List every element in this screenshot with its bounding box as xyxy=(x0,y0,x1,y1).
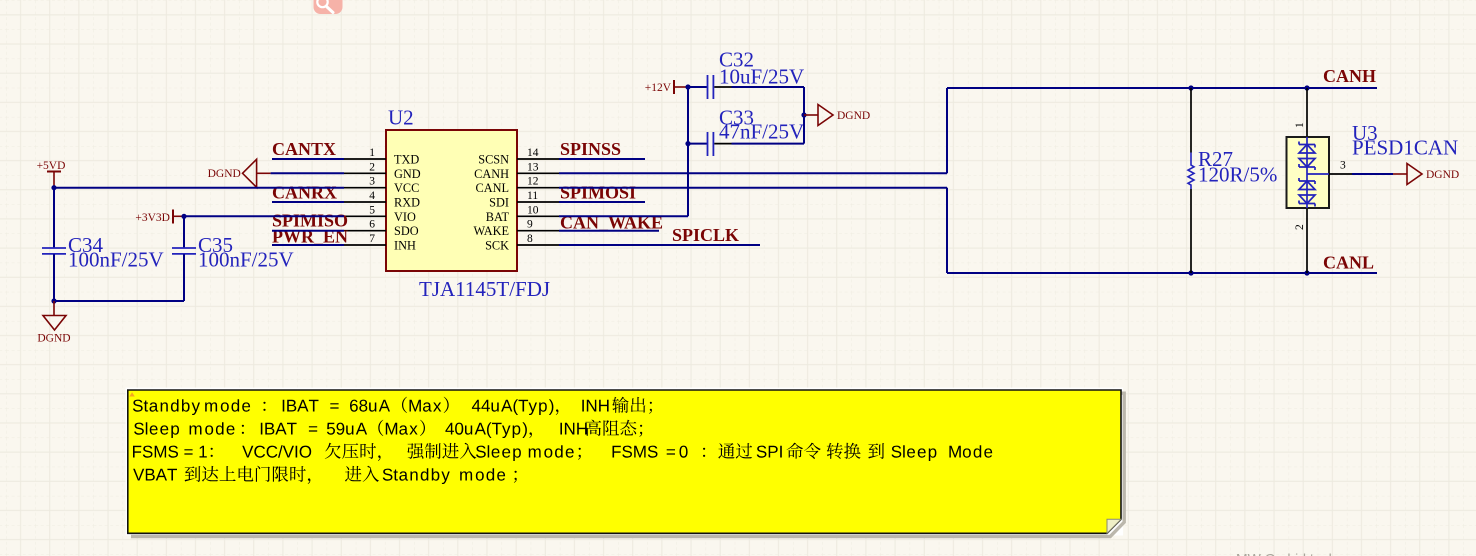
svg-text:SPICLK: SPICLK xyxy=(672,225,739,245)
wire CANH from pin13 xyxy=(559,172,947,174)
wire +3V3D to VIO pin5 xyxy=(184,215,344,217)
capacitor C32 xyxy=(707,75,709,99)
svg-text:INH: INH xyxy=(394,239,416,253)
svg-text:11: 11 xyxy=(527,190,538,202)
svg-text:7: 7 xyxy=(369,233,375,245)
svg-text:SDI: SDI xyxy=(489,196,509,210)
wire C34 top xyxy=(53,188,55,248)
wire to C32 left xyxy=(688,86,707,88)
U2 pin 1 (TXD) xyxy=(344,158,386,160)
wire C32 right xyxy=(732,86,805,88)
svg-text:1: 1 xyxy=(1294,122,1306,128)
svg-text:WAKE: WAKE xyxy=(473,224,509,238)
svg-text:2: 2 xyxy=(1294,224,1306,230)
svg-text:TXD: TXD xyxy=(394,153,419,167)
svg-text:DGND: DGND xyxy=(208,168,241,180)
wire CANL from pin12 xyxy=(559,187,947,189)
junction U3 bottom xyxy=(1304,270,1309,275)
svg-text:VCC: VCC xyxy=(394,181,419,195)
note box shadow xyxy=(131,393,1124,536)
wire CAN_WAKE from pin9 xyxy=(559,230,659,232)
wire PWR_EN to pin7 xyxy=(272,244,344,246)
svg-text:14: 14 xyxy=(527,147,539,159)
U3 diode D2 xyxy=(1299,159,1315,168)
wire +12V node down to C33 xyxy=(687,87,689,144)
svg-text:VIO: VIO xyxy=(394,210,416,224)
power port +5VD xyxy=(47,171,61,173)
junction +12V node xyxy=(685,84,690,89)
wire +5VD to VCC pin3 xyxy=(54,187,344,189)
wire CANRX to pin4 xyxy=(272,201,344,203)
wire CANL rail xyxy=(947,272,1377,274)
junction U3 top xyxy=(1304,85,1309,90)
U2 pin 3 (VCC) xyxy=(344,187,386,189)
svg-text:120R/5%: 120R/5% xyxy=(1198,162,1277,186)
toolbar icon artifact (top) xyxy=(314,0,343,14)
svg-text:47nF/25V: 47nF/25V xyxy=(719,119,804,143)
U3 diode D4 xyxy=(1299,195,1315,204)
U2 pin 2 (GND) xyxy=(344,172,386,174)
wire C35 bottom xyxy=(183,254,185,301)
svg-text:12: 12 xyxy=(527,176,539,188)
svg-text:DGND: DGND xyxy=(837,110,870,122)
U3 pin 3 xyxy=(1307,173,1329,175)
junction DGND node xyxy=(801,112,806,117)
wire CANH vertical xyxy=(946,88,948,173)
U2 pin 6 (SDO) xyxy=(344,230,386,232)
svg-text:100nF/25V: 100nF/25V xyxy=(68,247,164,271)
capacitor C35 xyxy=(172,247,196,249)
op-amp U2 body (TJA1145 transceiver) xyxy=(386,130,517,271)
svg-text:TJA1145T/FDJ: TJA1145T/FDJ xyxy=(419,277,550,301)
U2 pin 13 (CANH) xyxy=(517,172,559,174)
wire SPICLK from pin8 xyxy=(559,244,760,246)
junction C33 left node xyxy=(685,141,690,146)
junction R27 top xyxy=(1188,85,1193,90)
U2 pin 12 (CANL) xyxy=(517,187,559,189)
svg-text:+3V3D: +3V3D xyxy=(135,212,170,224)
U2 pin 14 (SCSN) xyxy=(517,158,559,160)
svg-text:MW Orchid tech: MW Orchid tech xyxy=(1236,551,1336,556)
svg-text:GND: GND xyxy=(394,167,421,181)
wire BAT vertical to +12V node xyxy=(687,87,689,216)
capacitor C34 xyxy=(42,247,66,249)
capacitor C33 xyxy=(707,132,709,156)
junction ground node xyxy=(51,298,56,303)
junction +3V3D node xyxy=(181,214,186,219)
svg-text:10: 10 xyxy=(527,204,539,216)
svg-text:BAT: BAT xyxy=(486,210,510,224)
note box white margin xyxy=(126,388,1124,536)
svg-text:RXD: RXD xyxy=(394,196,420,210)
svg-text:CANH: CANH xyxy=(1323,66,1376,86)
svg-text:3: 3 xyxy=(369,176,375,188)
svg-text:8: 8 xyxy=(527,233,533,245)
wire C33 right xyxy=(732,143,805,145)
wire pin2 to DGND xyxy=(271,172,344,174)
svg-text:CANL: CANL xyxy=(1323,253,1374,273)
svg-text:SPINSS: SPINSS xyxy=(560,139,621,159)
power port +3V3D xyxy=(172,210,174,224)
U2 pin 7 (INH) xyxy=(344,244,386,246)
svg-text:+12V: +12V xyxy=(645,82,672,94)
svg-text:9: 9 xyxy=(527,219,533,231)
wire SPINSS from pin14 xyxy=(559,158,645,160)
svg-text:DGND: DGND xyxy=(37,333,70,345)
U3 diode D3 xyxy=(1299,178,1315,184)
wire C33 up to ground node xyxy=(803,115,805,144)
wire C34 bottom xyxy=(53,254,55,301)
svg-text:6: 6 xyxy=(369,219,375,231)
svg-text:3: 3 xyxy=(1340,160,1346,172)
U2 pin 10 (BAT) xyxy=(517,215,559,217)
svg-text:SPIMOSI: SPIMOSI xyxy=(560,183,636,203)
svg-text:5: 5 xyxy=(369,204,375,216)
svg-text:SDO: SDO xyxy=(394,224,419,238)
wire SPIMOSI from pin11 xyxy=(559,201,645,203)
junction R27 bottom xyxy=(1188,270,1193,275)
svg-text:DGND: DGND xyxy=(1426,169,1459,181)
svg-text:SCSN: SCSN xyxy=(478,153,509,167)
power port +12V xyxy=(673,80,675,94)
svg-text:SCK: SCK xyxy=(485,239,509,253)
svg-text:CANTX: CANTX xyxy=(272,139,336,159)
svg-text:PWR_EN: PWR_EN xyxy=(272,227,348,247)
wire CANH rail xyxy=(947,87,1377,89)
transistor U3 PESD1CAN body xyxy=(1306,88,1308,137)
junction +5VD node xyxy=(51,185,56,190)
wire to C33 left xyxy=(688,143,707,145)
wire CANL vertical xyxy=(946,188,948,273)
ground DGND near C32/C33 xyxy=(804,114,818,116)
wire SPIMISO to pin6 xyxy=(272,230,344,232)
svg-text:4: 4 xyxy=(369,190,375,202)
svg-text:PESD1CAN: PESD1CAN xyxy=(1352,135,1458,159)
svg-text:100nF/25V: 100nF/25V xyxy=(198,247,294,271)
U2 pin 8 (SCK) xyxy=(517,244,559,246)
note text xyxy=(133,397,652,415)
note box xyxy=(128,390,1121,533)
wire CANTX to pin1 xyxy=(272,158,344,160)
svg-text:CANH: CANH xyxy=(474,167,509,181)
wire BAT from pin10 xyxy=(559,215,688,217)
resistor R27 xyxy=(1190,88,1192,153)
ground DGND below C34 xyxy=(53,301,55,316)
svg-text:13: 13 xyxy=(527,161,539,173)
wire C32 down to ground node xyxy=(803,87,805,115)
note box folded corner xyxy=(1107,519,1121,533)
ground DGND at U3 pin3 xyxy=(1393,173,1407,175)
svg-text:10uF/25V: 10uF/25V xyxy=(719,64,804,88)
U2 pin 4 (RXD) xyxy=(344,201,386,203)
svg-text:2: 2 xyxy=(369,161,375,173)
wire ground bus xyxy=(54,300,184,302)
svg-text:CANL: CANL xyxy=(476,181,509,195)
svg-text:U2: U2 xyxy=(388,106,414,130)
U2 pin 5 (VIO) xyxy=(344,215,386,217)
wire C35 top xyxy=(183,216,185,248)
ground DGND at pin2 xyxy=(257,172,271,174)
svg-text:CANRX: CANRX xyxy=(272,183,337,203)
U3 diode D1 xyxy=(1299,142,1315,207)
U2 pin 11 (SDI) xyxy=(517,201,559,203)
svg-text:+5VD: +5VD xyxy=(37,160,66,172)
note box corner marker xyxy=(129,392,135,396)
U2 pin 9 (WAKE) xyxy=(517,230,559,232)
wire U3 pin3 to DGND xyxy=(1352,173,1393,175)
svg-text:1: 1 xyxy=(369,147,375,159)
